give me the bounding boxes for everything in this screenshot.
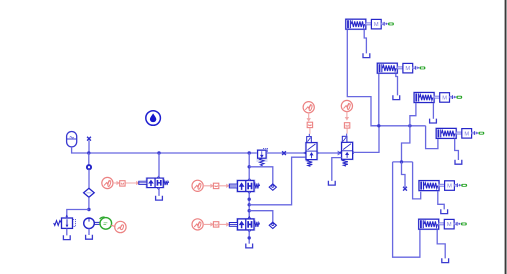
node bypass B return [248,198,251,201]
wire bus to cylinder 4 [426,126,438,149]
converter B [213,183,218,188]
wire source C to converter [203,223,213,225]
wire converter B to valve B [219,185,229,187]
tank cyl3 [430,119,437,123]
bypass B wire [249,167,273,184]
tank cyl2 [393,95,400,99]
node bypass C return [248,236,251,239]
tank pump [86,235,93,239]
speed reference source [115,221,126,232]
bypass C wire [249,211,273,223]
wire valve B bottom bus [248,192,250,219]
wire motor-source link [111,225,115,226]
solenoid valve 1 (vertical) [303,137,319,167]
wire converter V1 to solenoid [309,128,311,134]
wire supply to check valve [88,153,90,165]
wire converter A to valve A [125,182,138,184]
wire cyl4 right port to tank [455,139,459,160]
pump [84,218,95,229]
wire filter to pump junction [88,197,90,211]
cylinder 3 [413,92,462,104]
cylinder 5 [418,180,467,192]
node bypass C top [248,209,251,212]
wire supply to valve B top [248,153,250,181]
wire cyl3 left port to bus [410,103,416,126]
angular velocity source (motor) [100,217,112,229]
check valve C [269,222,276,228]
wire valve C to tank [248,230,250,244]
signal source V1 [303,102,314,113]
lower distribution wire [393,161,413,163]
wire lower bus to cylinder 6 [393,162,420,257]
wire bus down branch [402,126,410,162]
tank valve2 [328,181,335,185]
solenoid valve 2 (vertical) [339,136,355,166]
wire pump to tank [88,229,90,235]
wire stub with x end [402,162,406,187]
node bus cyl3 [408,124,411,127]
wire lower bus to cylinder 5 [413,162,421,199]
check valve B [269,184,276,190]
cylinder 4 [435,127,484,139]
marker x stub end [403,187,407,191]
node pump branch [87,208,90,211]
wire cyl5 right port to tank [438,191,444,210]
check valve [87,165,91,169]
wire accumulator to supply junction [72,147,89,153]
wire cyl1 left port to bus [347,29,378,125]
tank cyl5 [441,209,448,213]
wire source V2 down [346,112,348,120]
wire converter V2 to solenoid [346,128,348,133]
filter diamond [84,188,95,197]
wire valve A to tank [158,188,160,196]
wire converter C to valve C [219,223,229,225]
signal source A [102,177,113,188]
node supply-pump [87,151,90,154]
converter V1 [307,122,312,127]
wire branch to relief valve [67,210,89,218]
tank valve A [156,196,163,200]
shaft pump-motor [94,222,100,224]
converter A [120,181,125,186]
pressure reducing valve [257,148,268,165]
wire cyl6 right port to tank [437,229,445,258]
wire cyl2 right port to tank [396,73,398,95]
valve C directional [229,217,259,233]
signal source C [192,219,203,230]
wire source V1 down [308,113,310,121]
tank cyl6 [442,258,449,262]
cylinder 6 [418,218,467,230]
wire relief valve to tank [66,229,68,236]
tank cyl4 [455,160,462,164]
valve A directional [139,176,169,190]
wire source B to converter [203,185,213,187]
signal source B [192,180,203,191]
wire supply to valve A top port [158,153,160,178]
node supply-valveB [248,151,251,154]
converter V2 [344,123,349,128]
cylinder 1 [345,18,394,30]
wire valve2 right up to bus [353,126,379,153]
wire cyl1 right port to tank [364,29,366,53]
hydraulic fluid block [146,111,161,126]
wire check valve to filter [88,169,90,188]
wire cyl3 right port to tank [432,103,434,119]
relief valve [54,215,76,229]
wire valve1 right to valve2 left [317,152,341,155]
tank cyl1 [363,53,370,57]
wire cyl2 left port to bus [378,73,380,125]
marker x on supply [282,151,286,155]
converter C [213,222,218,227]
window right edge [505,0,507,274]
node bypass B top [248,165,251,168]
supply wire main horizontal [89,152,258,154]
node supply-valveA [157,151,160,154]
tank valve C [246,244,253,248]
wire stub x to junction [88,141,90,153]
unconnected stub marker x [87,137,91,141]
main bus wire [371,125,426,127]
wire source A to converter [113,182,119,184]
valve B directional [229,178,259,194]
node drain branch [248,203,251,206]
wire reducing valve to x [266,152,306,154]
accumulator [67,132,77,147]
cylinder 2 [376,62,425,74]
node lower bus [400,160,403,163]
tank relief [63,235,70,239]
signal source V2 [341,100,352,111]
wire valve2 drain to tank [332,158,342,181]
wire drain valve1 to bus [249,157,306,205]
node bus cyl2 [377,124,380,127]
